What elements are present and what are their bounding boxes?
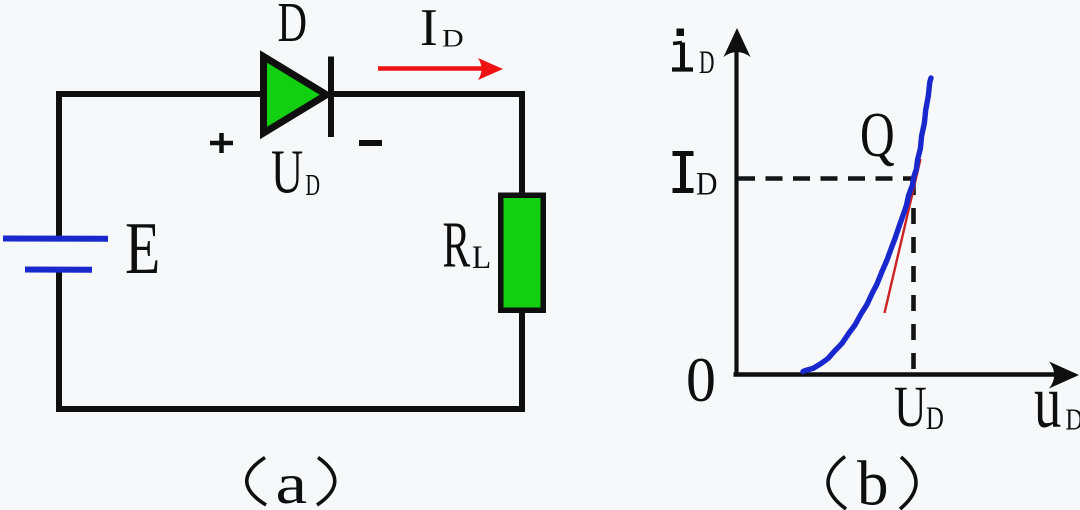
svg-text:U: U — [894, 376, 927, 440]
x-axis (graph b) — [734, 372, 1059, 376]
label D (diode designator) — [278, 0, 308, 54]
label E (battery value) — [125, 208, 160, 289]
svg-text:b: b — [857, 449, 889, 510]
svg-text:D: D — [306, 168, 321, 202]
tangent line at Q (red) — [885, 159, 921, 313]
svg-text:R: R — [443, 208, 471, 281]
plus polarity mark — [210, 133, 233, 153]
caption (a) — [247, 453, 335, 510]
label 0 (origin) — [686, 346, 716, 416]
wire: battery positive up and across to diode anode — [59, 94, 263, 238]
label UD (diode voltage) — [271, 137, 320, 206]
svg-text:E: E — [125, 208, 160, 289]
y-axis arrowhead — [724, 28, 751, 57]
svg-text:U: U — [271, 137, 303, 206]
svg-text:u: u — [1034, 360, 1061, 444]
label UD on x-axis — [894, 376, 944, 440]
svg-text:D: D — [442, 24, 464, 52]
wire: resistor bottom, along bottom, up to battery negative — [59, 270, 522, 409]
current arrow ID (red) — [378, 58, 503, 80]
svg-text:D: D — [278, 0, 308, 54]
svg-text:I: I — [420, 0, 438, 57]
label iD (y-axis variable) — [672, 29, 714, 82]
wire: diode cathode to top-right corner down to resistor — [330, 94, 522, 196]
svg-text:L: L — [472, 238, 491, 275]
dashed line: ID level to Q — [738, 176, 914, 181]
caption (b) — [828, 449, 916, 510]
battery E negative plate (short) — [25, 267, 92, 273]
label ID on y-axis — [673, 152, 718, 202]
svg-text:D: D — [699, 45, 714, 82]
diode D cathode bar — [328, 57, 334, 138]
svg-text:a: a — [276, 453, 308, 510]
diode D triangle (anode) — [264, 57, 327, 134]
label Q (operating point) — [860, 101, 895, 171]
svg-text:0: 0 — [686, 346, 716, 416]
svg-text:D: D — [1066, 403, 1080, 438]
diode characteristic curve (blue) — [803, 78, 931, 372]
svg-text:D: D — [696, 165, 717, 202]
y-axis (graph b) — [734, 47, 738, 375]
label ID (current) — [420, 0, 464, 57]
resistor RL body — [501, 195, 544, 310]
battery E positive plate (long) — [3, 236, 108, 242]
x-axis arrowhead — [1049, 362, 1079, 389]
label uD (x-axis variable) — [1034, 360, 1080, 444]
svg-text:Q: Q — [860, 101, 895, 171]
dashed line: Q down to UD — [911, 179, 916, 373]
minus polarity mark — [359, 140, 382, 146]
svg-text:D: D — [926, 401, 944, 437]
label RL (load resistor) — [443, 208, 492, 281]
